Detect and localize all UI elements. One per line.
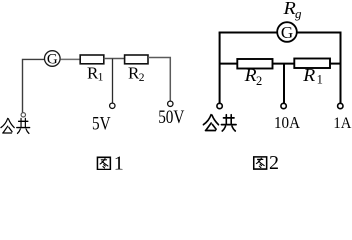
label R1 (fig1) bbox=[87, 64, 104, 84]
label Rg (fig2) bbox=[282, 0, 302, 21]
wire (fig2 right vertical) bbox=[340, 33, 342, 104]
svg-text:G: G bbox=[47, 52, 58, 68]
svg-text:g: g bbox=[295, 6, 302, 21]
svg-text:1: 1 bbox=[98, 71, 104, 83]
caption 图2 bbox=[254, 152, 279, 174]
galvanometer G with Rg (fig2) bbox=[277, 22, 297, 42]
wire (fig2 middle rail segments) bbox=[220, 63, 341, 65]
svg-text:1: 1 bbox=[317, 72, 323, 86]
terminal (fig1 common) bbox=[21, 113, 25, 117]
wire (fig1 left L: common lead up and across to G) bbox=[23, 59, 45, 112]
svg-text:5V: 5V bbox=[92, 114, 111, 135]
terminal (fig1 50V) bbox=[168, 101, 173, 106]
svg-text:50V: 50V bbox=[158, 108, 185, 128]
wire (fig1 R1 to R2) bbox=[104, 58, 125, 60]
wire (fig2 top left to G) bbox=[219, 32, 277, 34]
svg-text:1A: 1A bbox=[333, 115, 351, 132]
svg-text:2: 2 bbox=[256, 74, 262, 88]
svg-text:2: 2 bbox=[269, 152, 279, 170]
wire (fig2 middle vertical to 10A) bbox=[283, 64, 285, 103]
svg-text:1: 1 bbox=[114, 153, 124, 171]
label 10A (fig2) bbox=[274, 113, 301, 132]
wire (fig1 G to R1) bbox=[61, 58, 80, 60]
label R1 (fig2) bbox=[302, 66, 323, 87]
galvanometer G (fig1) bbox=[45, 51, 61, 68]
resistor R2 (fig2 box) bbox=[237, 59, 272, 69]
wire (fig2 G to top right) bbox=[297, 32, 342, 34]
terminal (fig2 1A) bbox=[338, 103, 343, 108]
label 50V (fig1) bbox=[158, 108, 185, 128]
label R2 (fig1) bbox=[128, 64, 145, 84]
svg-text:2: 2 bbox=[139, 72, 145, 84]
wire (fig1 5V tap) bbox=[112, 59, 114, 104]
terminal (fig1 5V) bbox=[110, 103, 115, 108]
wire (fig2 left vertical) bbox=[219, 33, 221, 104]
resistor R2 (fig1 box) bbox=[125, 55, 148, 64]
label 公共 (fig1) bbox=[1, 118, 30, 133]
resistor R1 (fig1 box) bbox=[80, 55, 104, 64]
label R2 (fig2) bbox=[244, 66, 263, 88]
resistor R1 (fig2 box) bbox=[294, 59, 330, 69]
svg-text:R: R bbox=[302, 66, 316, 86]
svg-text:10A: 10A bbox=[274, 113, 301, 132]
label 1A (fig2) bbox=[333, 115, 351, 132]
wire (fig1 R2 right, corner down to 50V terminal) bbox=[148, 58, 170, 102]
terminal (fig2 common) bbox=[217, 103, 222, 108]
terminal (fig2 10A) bbox=[281, 103, 286, 108]
caption 图1 bbox=[97, 153, 123, 175]
label 5V (fig1) bbox=[92, 114, 111, 135]
svg-text:G: G bbox=[281, 23, 293, 42]
label 公共 (fig2) bbox=[203, 115, 236, 131]
